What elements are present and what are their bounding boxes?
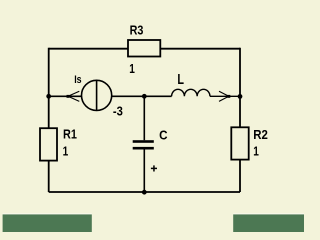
current source Is: [67, 74, 123, 119]
svg-text:1: 1: [253, 144, 259, 159]
node junction right (L to right rail): [238, 94, 243, 99]
current source Is circle body: [82, 80, 112, 110]
capacitor C plates: [133, 140, 154, 143]
svg-text:R2: R2: [253, 127, 268, 142]
node junction bottom (C to bottom rail): [142, 190, 147, 195]
green bar bottom left highlight edge: [3, 213, 92, 214]
resistor R2: [231, 127, 268, 160]
wire C down to bottom rail: [143, 150, 145, 193]
wire middle rail (Is branch to L): [49, 95, 172, 97]
wire bottom rail: [49, 191, 240, 193]
wire L to right rail with current arrow (pointing right): [210, 95, 240, 97]
svg-text:-3: -3: [113, 104, 123, 118]
resistor R1: [40, 127, 77, 161]
inductor L coil: [172, 89, 210, 96]
green bar bottom right highlight edge: [233, 213, 304, 214]
inductor L: [172, 71, 240, 101]
svg-text:L: L: [177, 71, 184, 88]
capacitor C: [133, 96, 168, 192]
current source Is arrow (pointing left): [68, 91, 79, 96]
svg-text:1: 1: [129, 61, 135, 76]
polarity mark + (C): [151, 167, 157, 169]
svg-text:1: 1: [63, 144, 69, 159]
green bar bottom left: [3, 214, 92, 232]
svg-text:R3: R3: [130, 23, 144, 38]
svg-text:C: C: [159, 127, 168, 142]
wire top rail: [49, 48, 240, 50]
node junction left (Is tap on left rail): [46, 94, 51, 99]
svg-text:Is: Is: [74, 74, 81, 86]
wire middle node down to C: [143, 96, 145, 140]
wire left rail: [48, 48, 50, 192]
resistor R2 body: [231, 127, 248, 159]
wire right rail: [239, 48, 241, 192]
resistor R1 body: [40, 128, 57, 160]
svg-text:R1: R1: [63, 127, 77, 142]
green bar bottom right: [233, 214, 304, 232]
node junction middle (C tap on middle rail): [142, 94, 147, 99]
resistor R3: [128, 23, 160, 76]
resistor R3 body: [128, 40, 160, 57]
